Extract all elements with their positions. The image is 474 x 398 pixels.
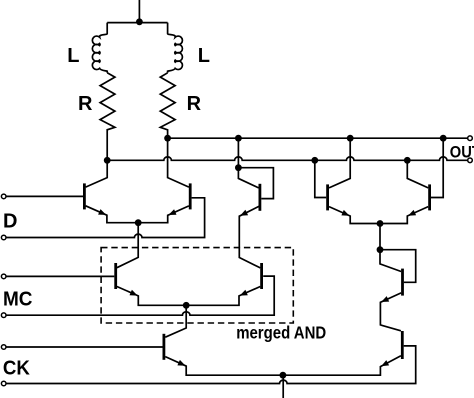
svg-text:OUT: OUT xyxy=(450,143,474,162)
svg-text:CK: CK xyxy=(3,357,31,379)
svg-text:L: L xyxy=(198,45,210,67)
svg-text:D: D xyxy=(3,210,17,232)
svg-text:MC: MC xyxy=(3,289,33,311)
svg-text:merged AND: merged AND xyxy=(236,323,326,343)
svg-text:L: L xyxy=(67,45,79,67)
svg-text:R: R xyxy=(78,93,93,115)
svg-text:R: R xyxy=(187,93,202,115)
